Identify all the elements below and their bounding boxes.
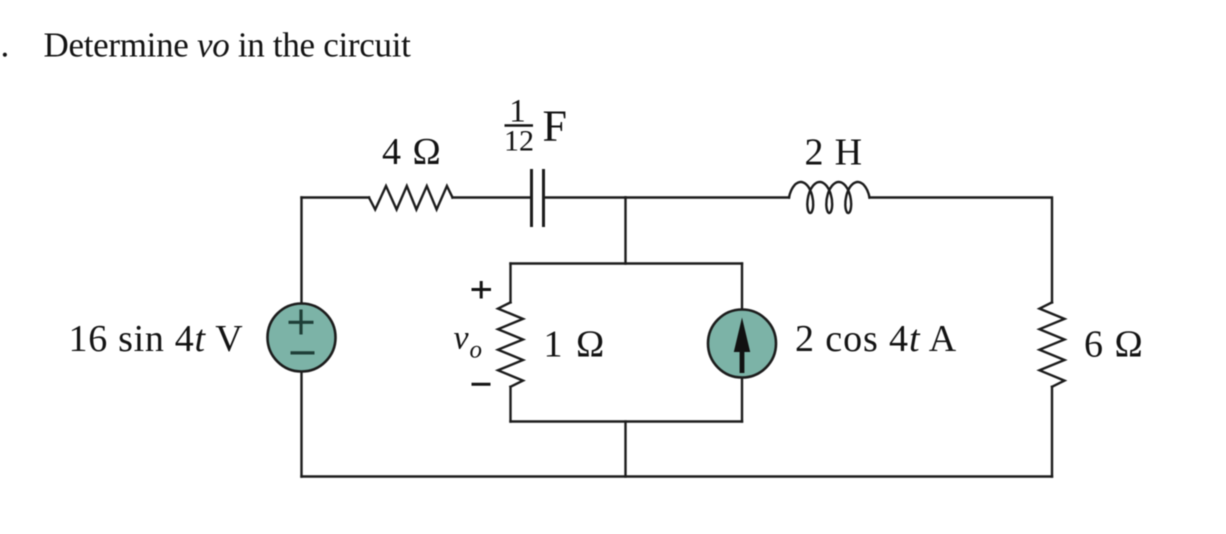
voltage source minus sign <box>291 351 315 354</box>
svg-text:16 sin 4t V: 16 sin 4t V <box>69 318 244 360</box>
wire inductor to top-right corner <box>870 198 1053 303</box>
label 1/12 F fraction <box>504 94 567 158</box>
plus sign above vo <box>472 281 492 299</box>
wire right vertical lower <box>1051 387 1053 477</box>
resistor R3 6ohm zigzag <box>1040 302 1065 386</box>
minus sign below vo <box>472 383 491 386</box>
svg-text:F: F <box>543 102 567 151</box>
current source Is circle <box>708 310 776 378</box>
svg-text:1 Ω: 1 Ω <box>544 324 607 366</box>
svg-text:.: . <box>1 26 10 65</box>
resistor R1 4ohm zigzag <box>369 186 453 210</box>
inner box right stub upper <box>741 264 743 310</box>
middle vertical to bottom wire <box>624 422 626 477</box>
capacitor C 1/12F plates <box>532 169 544 227</box>
svg-text:Determine vo in the circuit: Determine vo in the circuit <box>44 26 412 65</box>
inner box left stub lower <box>509 387 511 422</box>
svg-text:12: 12 <box>504 125 534 158</box>
current source arrow <box>734 318 750 374</box>
inductor L 2H coil <box>789 182 870 213</box>
voltage source Vs circle <box>268 304 336 372</box>
inner box bottom edge <box>511 420 743 422</box>
title text <box>1 26 412 65</box>
svg-text:v: v <box>454 320 470 357</box>
svg-text:2 cos 4t A: 2 cos 4t A <box>795 318 957 360</box>
resistor R2 1ohm zigzag <box>498 302 523 386</box>
svg-text:6 Ω: 6 Ω <box>1084 324 1144 366</box>
wire resistor to capacitor <box>453 196 531 198</box>
wire capacitor to node A <box>545 196 626 198</box>
wire left vertical lower <box>300 372 302 477</box>
wire node A to inductor <box>626 196 790 198</box>
inner box top edge <box>511 262 743 264</box>
voltage source plus sign <box>289 310 314 335</box>
wire left vertical upper <box>300 198 302 304</box>
node A junction vertical to inner box <box>624 198 626 264</box>
svg-text:4 Ω: 4 Ω <box>382 131 442 173</box>
inner box right stub lower <box>741 378 743 422</box>
inner box left stub upper <box>509 264 511 303</box>
svg-text:2 H: 2 H <box>805 131 863 173</box>
wire top-left horizontal <box>302 196 370 198</box>
label vo with subscript <box>454 320 483 364</box>
svg-text:o: o <box>470 337 483 364</box>
wire bottom horizontal <box>302 475 1053 477</box>
